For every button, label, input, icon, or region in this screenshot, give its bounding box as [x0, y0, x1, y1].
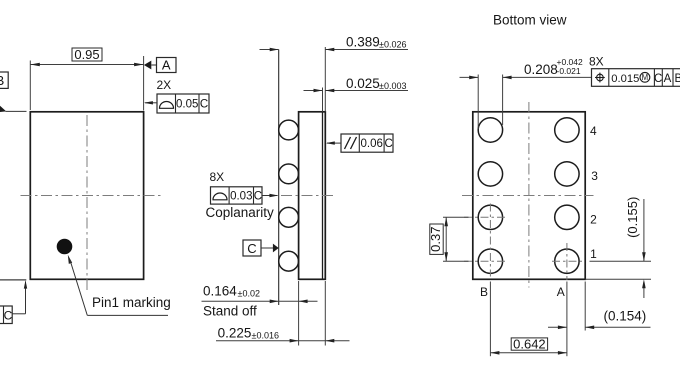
parallelism frame // 0.06 C	[341, 134, 393, 152]
coplanarity frame 0.03 C	[211, 187, 263, 204]
svg-text:M: M	[642, 73, 649, 82]
pin1 marking dot	[57, 239, 73, 255]
package outline bottom view	[473, 112, 585, 279]
horizontal centerline	[462, 195, 594, 197]
datum C box	[243, 240, 261, 256]
svg-text:0.164: 0.164	[203, 284, 237, 299]
svg-text:A: A	[162, 58, 171, 73]
dim 0.225 line	[216, 340, 350, 342]
pin1 leader arrow	[68, 255, 72, 264]
ext line B column	[489, 282, 491, 357]
ext line right edge down	[584, 282, 586, 331]
svg-text:C: C	[200, 99, 208, 111]
dim (0.154) line	[548, 326, 567, 328]
lid seam line	[322, 112, 324, 279]
crosshair B column vertical	[489, 204, 491, 277]
svg-text:B: B	[0, 73, 4, 88]
ext line lid seam	[322, 88, 324, 112]
dim 0.025 line	[304, 90, 323, 92]
dim 0.95 boxed value	[72, 48, 102, 61]
dim 0.208 line	[460, 76, 479, 78]
svg-text:C: C	[254, 190, 262, 202]
datum B box (cut off at edge)	[0, 72, 8, 88]
crosshair B1 horizontal	[464, 260, 508, 262]
ext line package outer right	[324, 47, 326, 112]
svg-text:0.642: 0.642	[513, 336, 546, 351]
ext line package right edge	[324, 281, 326, 346]
svg-text:±0.026: ±0.026	[379, 40, 406, 50]
svg-text:C: C	[247, 241, 256, 256]
dim 0.164 line	[202, 300, 318, 302]
dim (0.155) line	[643, 199, 645, 261]
seating plane line	[278, 50, 280, 306]
bump ball row4	[279, 120, 299, 140]
svg-text:C: C	[384, 138, 392, 150]
svg-text:±0.016: ±0.016	[252, 331, 279, 341]
package body side view	[299, 112, 326, 279]
dim 0.95 extension lines	[29, 61, 31, 111]
pad B2	[478, 205, 502, 229]
svg-text:0.05: 0.05	[176, 99, 198, 111]
dim 0.208 ext lines	[477, 75, 479, 130]
dim 0.37 line	[445, 217, 447, 261]
svg-text:A: A	[557, 285, 565, 299]
svg-text:0.37: 0.37	[428, 227, 443, 252]
pad A3	[555, 162, 579, 186]
svg-text:0.225: 0.225	[218, 326, 252, 341]
dim 0.389 line	[260, 49, 279, 51]
datum B triangle	[0, 106, 6, 112]
leader from bottom-left frame	[25, 282, 27, 314]
leader from 0.05 frame	[145, 102, 157, 104]
svg-text:±0.003: ±0.003	[379, 81, 406, 91]
svg-text:(0.155): (0.155)	[625, 197, 640, 238]
dim (0.155) ext lines	[590, 260, 652, 262]
pad A2	[555, 205, 579, 229]
svg-text:3: 3	[591, 169, 598, 183]
bump ball row2	[279, 207, 299, 227]
leader from parallelism frame	[327, 142, 341, 144]
dim 0.642 boxed value	[511, 338, 547, 350]
leader from coplanarity frame	[262, 195, 278, 197]
datum C triangle	[273, 244, 279, 253]
bottom-left frame (cut off)	[0, 306, 12, 324]
svg-text:0.06: 0.06	[361, 138, 383, 150]
svg-text:0.389: 0.389	[346, 35, 380, 50]
dim 0.37 ext lines	[443, 216, 469, 218]
svg-text:Bottom view: Bottom view	[493, 13, 567, 28]
ext line A column	[566, 282, 568, 357]
datum C leader	[261, 247, 274, 249]
svg-text:Stand off: Stand off	[203, 303, 257, 318]
svg-text:B: B	[480, 285, 488, 299]
pad B3	[478, 162, 502, 186]
svg-text:C: C	[4, 308, 13, 322]
dim 0.642 line	[490, 352, 567, 354]
crosshair B2 horizontal	[464, 216, 508, 218]
datum A box	[157, 58, 177, 73]
svg-text:0.03: 0.03	[230, 190, 252, 202]
pad A1	[555, 249, 579, 273]
profile frame 0.05 C	[157, 94, 209, 113]
horizontal centerline	[281, 195, 333, 197]
svg-text:8X: 8X	[210, 170, 225, 184]
datum A triangle	[144, 61, 151, 70]
crosshair A1 horizontal	[552, 260, 585, 262]
svg-text:2: 2	[590, 213, 597, 227]
datum B leader wire	[6, 110, 27, 112]
svg-text:±0.02: ±0.02	[238, 289, 260, 299]
svg-text:0.025: 0.025	[346, 76, 380, 91]
dim 0.95 line	[30, 64, 143, 66]
vertical centerline	[528, 102, 530, 288]
svg-text:-0.021: -0.021	[557, 66, 581, 76]
bump ball row3	[279, 164, 299, 184]
svg-text:C: C	[654, 73, 662, 85]
svg-text:0.208: 0.208	[524, 62, 558, 77]
svg-text:A: A	[664, 73, 672, 85]
bottom edge extension line	[0, 279, 26, 281]
svg-text:(0.154): (0.154)	[604, 308, 647, 323]
svg-text:1: 1	[590, 247, 597, 261]
dim 0.37 boxed value (rotated)	[430, 224, 443, 254]
svg-text:2X: 2X	[157, 78, 172, 92]
pad B4	[478, 118, 502, 142]
pad B1	[478, 249, 502, 273]
bump ball row1	[279, 251, 299, 271]
position frame 0.015 M C A B	[592, 69, 680, 87]
crosshair A1 vertical	[566, 243, 568, 280]
svg-text:0.015: 0.015	[611, 73, 639, 85]
svg-text:0.95: 0.95	[74, 47, 99, 62]
svg-text:Pin1 marking: Pin1 marking	[92, 295, 171, 310]
svg-text:4: 4	[590, 124, 597, 138]
pad A4	[555, 118, 579, 142]
svg-text:8X: 8X	[589, 55, 604, 69]
horizontal centerline	[21, 195, 162, 197]
vertical centerline	[86, 115, 88, 291]
ext line package left edge	[298, 281, 300, 346]
svg-text:B: B	[674, 73, 680, 85]
package outline top view	[30, 112, 143, 279]
svg-text:Coplanarity: Coplanarity	[206, 205, 275, 220]
